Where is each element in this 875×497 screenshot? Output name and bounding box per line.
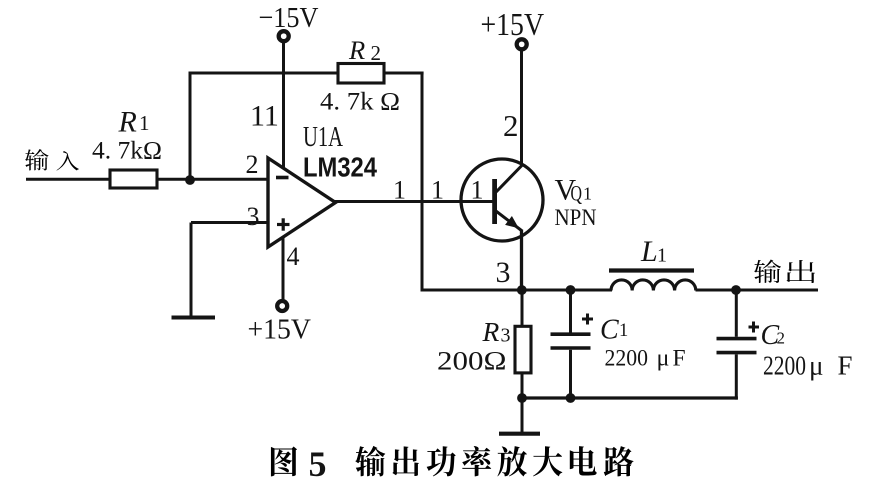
svg-text:1: 1 [393,176,406,205]
svg-text:2: 2 [503,108,519,143]
svg-text:R: R [482,316,500,347]
svg-text:3: 3 [501,325,511,347]
svg-text:R: R [348,35,365,65]
svg-text:F: F [838,351,853,381]
svg-text:μ: μ [657,346,670,372]
svg-text:1: 1 [619,321,628,341]
svg-text:1: 1 [583,184,592,204]
svg-text:2: 2 [246,150,259,179]
svg-text:−15V: −15V [259,2,319,34]
svg-text:Q: Q [571,181,583,206]
svg-text:U1A: U1A [303,121,343,153]
svg-text:2200: 2200 [763,351,806,381]
svg-text:200Ω: 200Ω [437,347,507,376]
svg-text:4: 4 [287,242,300,271]
svg-text:1: 1 [471,176,484,205]
svg-text:NPN: NPN [555,205,597,231]
svg-text:1: 1 [139,111,150,135]
svg-text:R: R [118,106,137,139]
svg-text:1: 1 [431,176,444,205]
svg-text:μ: μ [809,351,823,381]
svg-text:11: 11 [250,100,279,133]
svg-text:3: 3 [247,202,260,231]
svg-text:2: 2 [371,41,382,65]
svg-text:F: F [673,346,686,372]
svg-text:5: 5 [309,444,327,484]
svg-text:2200: 2200 [605,346,649,372]
svg-text:+15V: +15V [481,6,545,42]
svg-text:3: 3 [496,256,511,289]
svg-text:1: 1 [657,245,667,267]
svg-text:4. 7kΩ: 4. 7kΩ [92,136,162,165]
svg-text:4. 7k Ω: 4. 7k Ω [320,89,400,116]
svg-text:L: L [640,235,658,268]
svg-text:LM324: LM324 [303,152,378,183]
svg-text:2: 2 [777,329,786,348]
svg-text:+15V: +15V [248,314,312,346]
svg-text:C: C [600,315,619,346]
